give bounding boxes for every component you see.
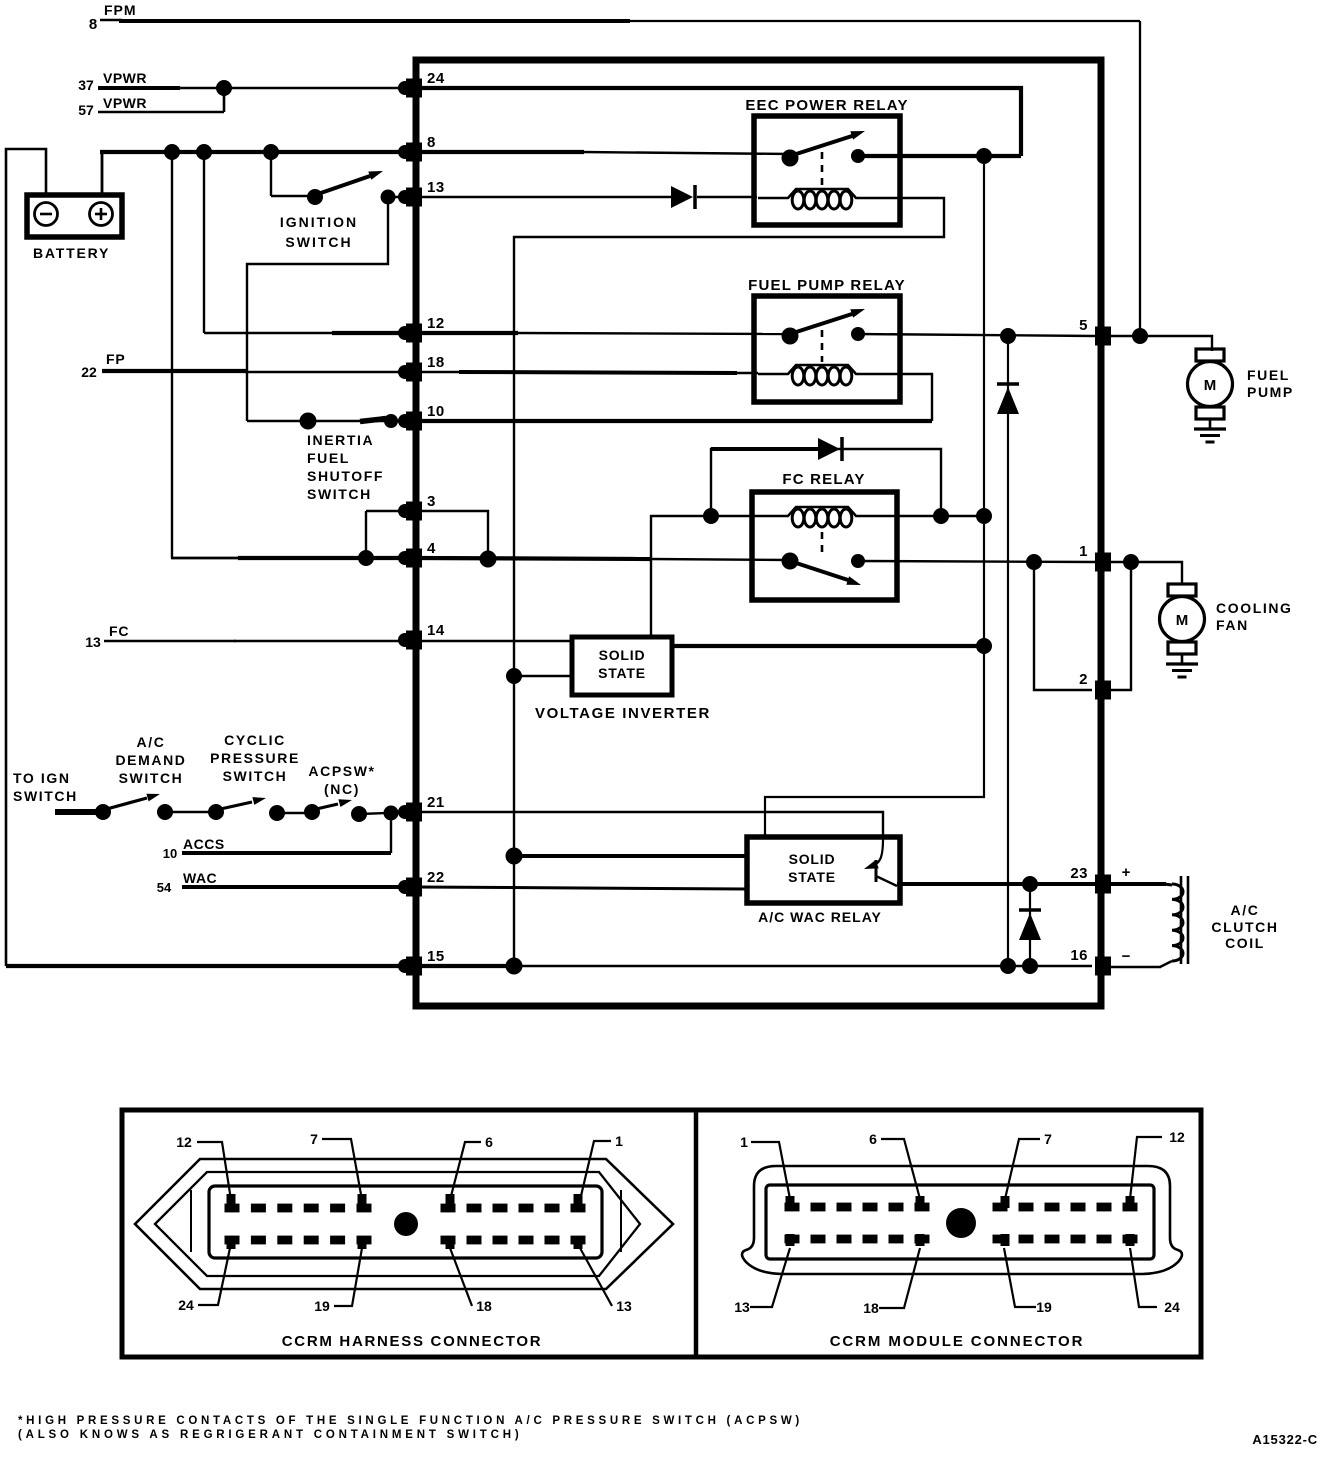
svg-text:(NC): (NC) — [324, 781, 360, 797]
pin 8 (left edge) — [398, 134, 436, 162]
pin 12 (left edge) — [398, 315, 445, 343]
svg-text:19: 19 — [314, 1298, 330, 1314]
ACPSW switch — [304, 799, 352, 820]
pin 14 (left edge) — [398, 622, 445, 650]
svg-text:4: 4 — [427, 540, 436, 557]
svg-text:BATTERY: BATTERY — [33, 245, 110, 261]
wire pin 4 row to FC relay — [416, 558, 790, 560]
wire rail drop to pin 4 row — [171, 152, 366, 558]
CCRM module box — [416, 60, 1101, 1006]
junction EEC out / inverter rail — [976, 148, 992, 164]
pin label 6 (harness) — [450, 1134, 493, 1200]
wire demand to pressure — [165, 811, 216, 813]
svg-text:A15322-C: A15322-C — [1252, 1432, 1318, 1447]
node ACCS pin 10 label — [163, 836, 225, 861]
junction chain a — [157, 804, 173, 820]
svg-text:12: 12 — [176, 1134, 192, 1150]
svg-text:7: 7 — [1044, 1131, 1052, 1147]
svg-text:SWITCH: SWITCH — [223, 768, 288, 784]
svg-text:1: 1 — [740, 1134, 748, 1150]
svg-text:SOLID: SOLID — [789, 851, 836, 867]
wire rail drop to ignition switch — [271, 152, 315, 196]
junction FPM tap — [1132, 328, 1148, 344]
pin 10 (left edge) — [398, 403, 445, 431]
wire inverter rail A down to WAC — [765, 156, 984, 839]
pin label 7 (harness) — [310, 1131, 362, 1200]
pin label 18 (module) — [863, 1248, 920, 1316]
pin label 18 (harness) — [450, 1248, 492, 1314]
pin label 12 (module) — [1130, 1129, 1185, 1199]
svg-text:FPM: FPM — [104, 2, 137, 18]
svg-text:COIL: COIL — [1225, 935, 1265, 951]
battery — [27, 195, 122, 261]
svg-text:A/C: A/C — [1231, 902, 1260, 918]
node FP pin 22 label — [81, 351, 125, 380]
pin label 12 (harness) — [176, 1134, 231, 1200]
wire inertia row to pin 10 — [247, 420, 416, 423]
junction ACCS join — [384, 806, 399, 821]
wire pin 14 row — [416, 640, 572, 642]
svg-text:57: 57 — [78, 102, 94, 118]
svg-text:15: 15 — [427, 948, 445, 965]
junction clamp top — [1022, 876, 1038, 892]
pin label 24 (harness) — [178, 1248, 230, 1313]
svg-text:+: + — [1122, 864, 1131, 881]
relay EEC POWER RELAY — [745, 97, 908, 225]
pin label 6 (module) — [869, 1131, 920, 1199]
pin 22 (left edge) — [398, 869, 445, 897]
junction inverter output — [976, 638, 992, 654]
diode CR2 over FC relay — [818, 437, 842, 461]
svg-text:(ALSO KNOWS AS REGRIGERANT CON: (ALSO KNOWS AS REGRIGERANT CONTAINMENT S… — [18, 1429, 522, 1441]
node CYCLIC PRESSURE SWITCH label — [210, 732, 300, 784]
wire fuel pump relay switch to pin 5 — [858, 334, 1095, 336]
node VPWR pin 37 label — [78, 70, 147, 93]
wire FC coil right — [893, 515, 984, 517]
junction pin4 outside — [358, 550, 374, 566]
transistor Q1 in WAC relay — [864, 839, 897, 886]
svg-text:VPWR: VPWR — [103, 95, 147, 111]
svg-text:18: 18 — [476, 1298, 492, 1314]
svg-text:16: 16 — [1070, 947, 1088, 964]
svg-text:13: 13 — [734, 1299, 750, 1315]
svg-text:A/C WAC RELAY: A/C WAC RELAY — [758, 909, 882, 925]
junction VPWR — [216, 80, 232, 96]
svg-text:23: 23 — [1070, 865, 1088, 882]
svg-text:FAN: FAN — [1216, 617, 1249, 633]
ignition switch — [280, 171, 396, 250]
wire acpsw to pin 21 — [351, 806, 416, 822]
footnote line 2 — [18, 1429, 522, 1441]
wire diode line B pin5 to pin16 — [1007, 336, 1009, 966]
svg-text:EEC POWER RELAY: EEC POWER RELAY — [745, 97, 908, 114]
pin label 24 (module) — [1130, 1248, 1180, 1315]
pin 4 (left edge) — [398, 540, 436, 568]
solid state voltage inverter U1 — [535, 637, 711, 722]
pin label 1 (module) — [740, 1134, 790, 1199]
wire rail drop to pin 12 row — [204, 152, 416, 333]
wire FC switch to pin 1 — [858, 561, 1095, 562]
pin label 19 (module) — [1004, 1248, 1052, 1315]
connector CCRM module connector body — [742, 1166, 1182, 1274]
relay FUEL PUMP RELAY — [748, 277, 906, 402]
pin label 1 (harness) — [580, 1133, 623, 1200]
wire ACCS up to pin 21 row — [182, 813, 391, 853]
svg-text:WAC: WAC — [183, 870, 217, 886]
node FPM (pin 8 net label) — [89, 2, 137, 33]
junction fan feed — [1123, 554, 1139, 570]
svg-text:FUEL: FUEL — [1247, 367, 1290, 383]
junction pin5 diode branch — [1000, 328, 1016, 344]
svg-text:12: 12 — [1169, 1129, 1185, 1145]
svg-text:37: 37 — [78, 77, 94, 93]
cooling fan motor — [1160, 584, 1293, 654]
node TO IGN SWITCH label — [13, 770, 78, 804]
caption CCRM HARNESS CONNECTOR — [282, 1333, 542, 1350]
svg-text:18: 18 — [863, 1300, 879, 1316]
svg-text:SWITCH: SWITCH — [307, 486, 372, 502]
wire WAC output to pin 23 — [897, 882, 1095, 886]
pin label 13 (module) — [734, 1248, 790, 1315]
wire FPR coil to pin 10 row — [896, 374, 932, 421]
svg-text:1: 1 — [1079, 543, 1088, 560]
svg-text:A/C: A/C — [137, 734, 166, 750]
junction FC coil right b — [976, 508, 992, 524]
svg-text:2: 2 — [1079, 671, 1088, 688]
wire FC coil left to inverter — [651, 516, 756, 637]
wire pin 3 inside jumper — [416, 511, 488, 558]
junction FC coil right a — [933, 508, 949, 524]
node ACPSW (NC) label — [308, 763, 375, 797]
svg-text:22: 22 — [427, 869, 445, 886]
junction chain b — [269, 805, 285, 821]
svg-text:*HIGH PRESSURE CONTACTS OF THE: *HIGH PRESSURE CONTACTS OF THE SINGLE FU… — [18, 1415, 803, 1427]
svg-text:SWITCH: SWITCH — [13, 788, 78, 804]
wire FP to pin 18 — [102, 371, 416, 372]
connector panel frame — [122, 1110, 1201, 1357]
relay A/C WAC (solid state) — [747, 837, 900, 925]
svg-text:24: 24 — [1164, 1299, 1180, 1315]
svg-text:TO IGN: TO IGN — [13, 770, 71, 786]
svg-text:M: M — [1176, 612, 1189, 629]
pin 18 (left edge) — [398, 354, 445, 382]
junction clamp bottom — [1022, 958, 1038, 974]
wire ignition switch to pin 13 — [388, 196, 416, 198]
junction fan jumper top — [1026, 554, 1042, 570]
node VPWR pin 57 label — [78, 95, 147, 118]
diode CR1 on pin 13 row — [671, 185, 695, 209]
wire EEC switch out to pin24 joint — [858, 154, 1021, 158]
wire pin 24 row — [416, 88, 1021, 156]
svg-text:M: M — [1204, 377, 1217, 394]
wire pressure to acpsw — [277, 812, 312, 814]
wire battery negative to left rail / pin 15 — [6, 149, 46, 966]
pin 24 (left edge) — [398, 70, 445, 98]
inertia fuel shutoff switch — [307, 414, 398, 502]
svg-text:IGNITION: IGNITION — [280, 214, 358, 230]
svg-text:24: 24 — [178, 1297, 194, 1313]
wire inverter output rail — [672, 644, 984, 648]
svg-text:SWITCH: SWITCH — [119, 770, 184, 786]
svg-text:CYCLIC: CYCLIC — [224, 732, 286, 748]
svg-text:PRESSURE: PRESSURE — [210, 750, 300, 766]
wire pin 3 outside jumper — [366, 511, 416, 558]
svg-text:VOLTAGE INVERTER: VOLTAGE INVERTER — [535, 705, 711, 722]
fuel pump motor — [1188, 349, 1294, 419]
svg-text:FP: FP — [106, 351, 126, 367]
svg-text:CCRM MODULE CONNECTOR: CCRM MODULE CONNECTOR — [830, 1333, 1085, 1350]
pin 1 (right edge) — [1079, 543, 1111, 572]
diode CR4 clamp — [1019, 884, 1041, 966]
A/C demand switch — [95, 794, 160, 820]
pin label 19 (harness) — [314, 1248, 362, 1314]
svg-text:FUEL: FUEL — [307, 450, 350, 466]
pin 16 (right edge) — [1070, 947, 1111, 976]
wire pin 2 inside jumper — [1034, 562, 1092, 690]
wire pin 21 row into WAC top — [416, 812, 883, 839]
wire WAC to pin 22 — [182, 885, 416, 889]
svg-text:13: 13 — [85, 634, 101, 650]
svg-text:10: 10 — [427, 403, 445, 420]
svg-text:FUEL PUMP RELAY: FUEL PUMP RELAY — [748, 277, 906, 294]
wire pin 5 to fuel pump — [1110, 336, 1212, 351]
wire ign switch feed stub — [55, 809, 99, 815]
svg-text:ACCS: ACCS — [183, 836, 225, 852]
svg-text:6: 6 — [485, 1134, 493, 1150]
pin 21 (left edge) — [398, 794, 445, 822]
svg-text:8: 8 — [89, 16, 97, 33]
junction pin4 inside — [480, 551, 497, 568]
junction rail pin15 row — [506, 958, 523, 975]
svg-text:19: 19 — [1036, 1299, 1052, 1315]
junction lineB bottom — [1000, 958, 1016, 974]
svg-text:10: 10 — [163, 846, 177, 861]
svg-text:12: 12 — [427, 315, 445, 332]
pin label 7 (module) — [1005, 1131, 1052, 1199]
svg-text:SHUTOFF: SHUTOFF — [307, 468, 384, 484]
svg-text:21: 21 — [427, 794, 445, 811]
node FC pin 13 label — [85, 623, 129, 650]
wire FC to pin 14 — [104, 640, 416, 643]
wire clutch coil return to pin 16 — [1110, 961, 1172, 967]
svg-text:COOLING: COOLING — [1216, 600, 1293, 616]
wire pin 12 row to FPR — [416, 333, 790, 334]
svg-text:7: 7 — [310, 1131, 318, 1147]
wire inverter lower-left to rail — [514, 675, 572, 677]
svg-text:FC: FC — [109, 623, 129, 639]
drawing number A15322-C — [1252, 1432, 1318, 1447]
svg-text:PUMP: PUMP — [1247, 384, 1294, 400]
wire VPWR 37 to pin 24 — [98, 86, 416, 90]
svg-text:STATE: STATE — [788, 869, 836, 885]
cyclic pressure switch — [208, 797, 266, 820]
junction FC coil left — [703, 508, 719, 524]
svg-text:22: 22 — [81, 364, 97, 380]
wire pin 15/16 row — [6, 964, 1092, 968]
node WAC pin 54 label — [157, 870, 217, 895]
pin 2 (right edge) — [1079, 671, 1111, 700]
caption CCRM MODULE CONNECTOR — [830, 1333, 1085, 1350]
wire VPWR 57 joins 37 — [98, 88, 224, 112]
svg-text:SWITCH: SWITCH — [285, 234, 352, 250]
wire battery positive rail to pin 8 — [100, 152, 416, 196]
wire ignition branch down to inertia row — [247, 199, 388, 421]
footnote line 1 — [18, 1415, 803, 1427]
svg-text:8: 8 — [427, 134, 436, 151]
svg-text:54: 54 — [157, 880, 172, 895]
svg-text:ACPSW*: ACPSW* — [308, 763, 375, 779]
ground cooling fan — [1166, 654, 1198, 677]
wire EEC coil return long path — [514, 198, 944, 966]
wire pin 2 outside jumper — [1110, 562, 1131, 690]
diode CR3 on line B — [997, 384, 1019, 414]
svg-text:FC RELAY: FC RELAY — [782, 471, 865, 488]
svg-text:6: 6 — [869, 1131, 877, 1147]
pin 3 (left edge) — [398, 493, 436, 521]
pin label 13 (harness) — [580, 1248, 632, 1314]
svg-text:3: 3 — [427, 493, 436, 510]
svg-text:24: 24 — [427, 70, 445, 87]
junction battery rail a — [164, 144, 180, 160]
svg-text:−: − — [1122, 948, 1131, 965]
pin 13 (left edge) — [398, 179, 445, 207]
junction battery rail b — [196, 144, 212, 160]
wire pin 1 to cooling fan — [1110, 562, 1182, 585]
wire pin 13 row to diode — [416, 196, 671, 198]
node A/C DEMAND SWITCH label — [115, 734, 186, 786]
svg-text:1: 1 — [615, 1133, 623, 1149]
junction inertia feed — [300, 413, 317, 430]
wire rail to WAC left — [514, 854, 747, 858]
svg-text:13: 13 — [427, 179, 445, 196]
svg-text:INERTIA: INERTIA — [307, 432, 374, 448]
svg-text:STATE: STATE — [598, 665, 646, 681]
svg-text:18: 18 — [427, 354, 445, 371]
wire pin 22 row to WAC — [416, 887, 747, 889]
connector CCRM harness connector body — [135, 1159, 673, 1289]
svg-text:14: 14 — [427, 622, 445, 639]
svg-text:13: 13 — [616, 1298, 632, 1314]
inductor A/C clutch coil — [1122, 864, 1279, 965]
junction inverter-left rail — [506, 668, 522, 684]
pin 15 (left edge) — [398, 948, 445, 976]
svg-text:SOLID: SOLID — [599, 647, 646, 663]
relay FC RELAY — [752, 471, 897, 600]
wire pin 10 row inside — [416, 419, 932, 423]
junction battery rail c — [263, 144, 279, 160]
wire pin 4 outside row — [364, 556, 416, 560]
svg-text:5: 5 — [1079, 317, 1088, 334]
junction WAC-left rail — [506, 848, 523, 865]
svg-text:CCRM HARNESS CONNECTOR: CCRM HARNESS CONNECTOR — [282, 1333, 542, 1350]
wire pin 8 row to EEC relay — [416, 152, 790, 154]
ground fuel pump — [1194, 419, 1226, 442]
wire pin 18 row to FPR coil — [416, 372, 758, 373]
svg-text:CLUTCH: CLUTCH — [1211, 919, 1278, 935]
svg-text:VPWR: VPWR — [103, 70, 147, 86]
wire FPM run to fuel-pump node — [100, 20, 1140, 336]
pin 5 (right edge) — [1079, 317, 1111, 346]
svg-text:DEMAND: DEMAND — [115, 752, 186, 768]
pin 23 (right edge) — [1070, 865, 1111, 894]
wire diode to EEC coil — [697, 196, 757, 199]
wire FC diode branch — [711, 449, 941, 516]
wire pin 23 to clutch coil — [1110, 884, 1172, 885]
